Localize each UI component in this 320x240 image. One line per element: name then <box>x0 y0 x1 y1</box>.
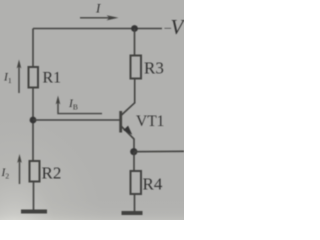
ground (right) <box>122 211 143 215</box>
svg-text:R3: R3 <box>144 59 164 78</box>
resistor R4 <box>131 171 142 194</box>
wire: node to R4 <box>133 152 135 172</box>
svg-text:I: I <box>95 1 101 16</box>
node B (top right junction) <box>131 25 138 32</box>
ground (left) <box>21 210 47 214</box>
current arrow I (top) <box>80 15 119 20</box>
svg-text:VT1: VT1 <box>136 113 164 130</box>
svg-text:R2: R2 <box>42 164 62 183</box>
wire: right rail to R3 <box>134 29 136 57</box>
svg-text:R1: R1 <box>43 70 62 87</box>
wire: emitter down to node <box>133 139 135 153</box>
wire: base wire from node to VT1 <box>33 119 120 121</box>
svg-text:R4: R4 <box>143 175 163 194</box>
schematic of single-stage transistor amplifier <box>0 0 184 220</box>
resistor R1 <box>29 67 39 88</box>
node A (base divider junction) <box>30 117 37 124</box>
svg-text:V: V <box>171 15 185 39</box>
wire: left rail top (to R1) <box>32 29 34 68</box>
wire: output to right edge <box>134 150 184 152</box>
wire: R1 bottom to base node <box>32 88 34 162</box>
current arrow I1 <box>17 60 22 94</box>
wire: R4 to ground <box>134 194 136 211</box>
current arrow I2 <box>17 154 22 184</box>
node C (emitter output junction) <box>130 148 137 155</box>
wire: top supply rail <box>33 28 162 30</box>
resistor R3 <box>131 56 142 79</box>
transistor VT1 <box>121 103 135 139</box>
wire: R3 to collector <box>134 79 136 104</box>
resistor R2 <box>30 161 40 182</box>
wire: R2 bottom to ground <box>33 182 35 211</box>
current arrow IB (bent) <box>56 96 102 114</box>
